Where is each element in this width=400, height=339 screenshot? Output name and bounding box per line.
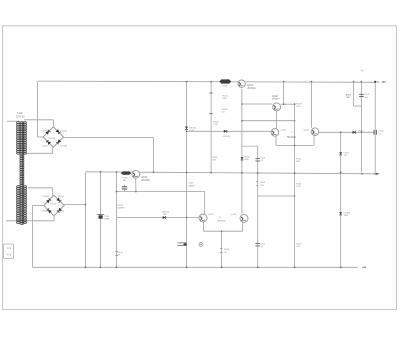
svg-text:TM-9031: TM-9031 [287,137,297,139]
svg-text:33K: 33K [212,159,216,161]
svg-text:4.7K: 4.7K [296,106,301,108]
svg-text:R113: R113 [346,94,352,96]
svg-text:TM-9116: TM-9116 [217,220,226,222]
svg-text:Q104: Q104 [304,129,310,131]
svg-text:1N1115: 1N1115 [48,138,56,140]
svg-text:¼ 2: ¼ 2 [7,254,12,257]
svg-text:CR105: CR105 [223,136,231,138]
svg-text:Q101: Q101 [247,85,253,87]
svg-text:CR101: CR101 [61,131,68,133]
svg-text:2N2867: 2N2867 [272,98,280,100]
svg-text:CR112: CR112 [41,211,48,213]
svg-text:CR111: CR111 [58,196,65,198]
svg-text:Q106: Q106 [231,214,237,216]
svg-text:Q103: Q103 [281,129,287,131]
svg-text:T100: T100 [17,111,23,115]
svg-text:CR100: CR100 [42,131,49,133]
svg-text:1.2K: 1.2K [296,186,301,188]
svg-text:CR102: CR102 [42,145,49,147]
svg-text:CR113: CR113 [58,211,65,213]
svg-text:2N301A: 2N301A [247,87,256,90]
svg-text:1N1115: 1N1115 [50,204,58,206]
svg-text:F101: F101 [223,86,229,88]
svg-text:¼ 1: ¼ 1 [7,247,12,250]
svg-text:C106: C106 [188,183,194,185]
svg-text:30MFD: 30MFD [188,185,195,187]
svg-text:Q100: Q100 [141,177,147,179]
svg-text:CR110: CR110 [43,196,50,198]
svg-text:115V 60: 115V 60 [16,116,25,119]
svg-text:2.2K: 2.2K [213,124,218,126]
svg-text:50MFD: 50MFD [118,208,126,210]
svg-text:Q105: Q105 [208,214,214,216]
svg-text:6.8K: 6.8K [245,159,250,161]
svg-text:2MFD: 2MFD [104,218,110,220]
svg-text:28V: 28V [381,80,386,84]
svg-text:CR103: CR103 [61,145,68,147]
svg-text:2N1308: 2N1308 [141,180,150,182]
